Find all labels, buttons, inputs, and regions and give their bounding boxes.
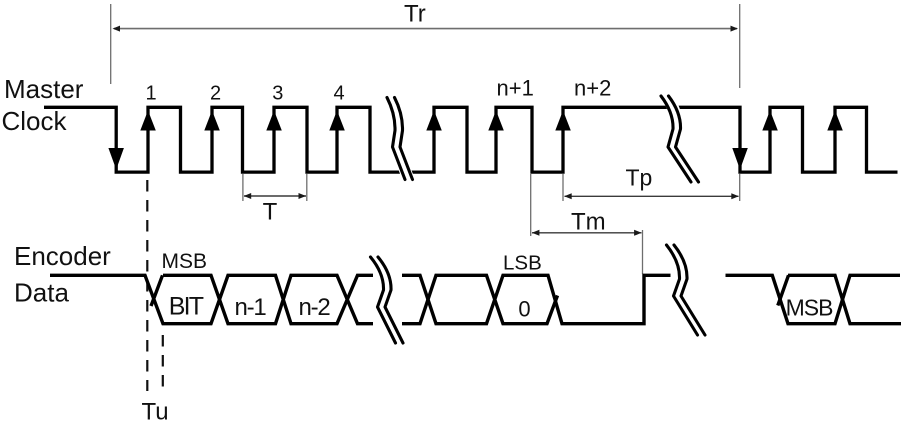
clock rising-edge arrow after break [426,111,442,131]
clock falling-edge arrow at Tr end [732,148,748,170]
Tm right arrowhead [634,230,642,236]
Tu second dashed line (data valid) [162,335,164,391]
Tp dimension line [565,195,739,197]
data break 2 white gap [670,243,702,338]
Tr left arrowhead [113,26,121,32]
master clock waveform [44,107,898,172]
clock break 1 stroke a [387,98,405,180]
clock rising-edge arrow pulse 2 [204,111,220,131]
encoder data bus line C (tail MSB cell counter-phase) [778,275,901,323]
Tm left arrowhead [532,230,540,236]
svg-text:n+2: n+2 [574,76,611,101]
Tr dimension right extension line [739,4,741,88]
clock rising-edge arrow pulse n+1 [488,111,504,131]
clock rising-edge arrow (tail pulse a) [762,111,778,131]
T right arrowhead [299,193,307,199]
encoder data bus line A (idle high then alternating) [50,275,900,323]
encoder data bus line B (counter-phase) [151,275,558,323]
svg-text:BIT: BIT [169,293,204,321]
Tp dimension right extension line [739,174,741,201]
Tm dimension left extension line [530,174,532,236]
data break 1 stroke b [378,257,403,343]
data break 1 stroke a [371,257,396,343]
svg-text:Tm: Tm [571,209,606,236]
svg-text:MSB: MSB [786,295,834,321]
svg-text:Tr: Tr [404,1,426,28]
Tr right arrowhead [731,26,739,32]
svg-text:Tp: Tp [626,165,653,191]
svg-text:Data: Data [14,278,69,308]
clock rising-edge arrow (tail pulse b) [827,111,843,131]
svg-text:MSB: MSB [162,250,208,273]
svg-text:n-2: n-2 [298,294,330,321]
svg-text:1: 1 [145,83,156,105]
T dimension left extension line [242,174,244,201]
svg-text:0: 0 [518,297,530,322]
Tm dimension line [532,232,642,234]
svg-text:Encoder: Encoder [14,241,111,271]
Tu first dashed line (clock edge) [146,180,148,391]
clock break 1 stroke b [395,98,413,180]
clock rising-edge arrow pulse 1 [140,111,156,131]
Tp dimension left extension line [562,174,564,201]
Tr dimension left extension line [110,4,112,84]
clock break 2 stroke a [661,96,691,182]
clock break 2 stroke b [669,96,699,182]
clock break 1 white gap [391,95,410,182]
svg-text:Tu: Tu [142,399,169,423]
clock falling-edge arrow (start) [108,148,124,170]
svg-text:Clock: Clock [2,106,68,136]
clock break 2 white gap [665,94,696,185]
clock rising-edge arrow pulse 4 [329,111,345,131]
svg-text:T: T [263,199,278,226]
clock rising-edge arrow pulse n+2 [555,111,571,131]
clock rising-edge arrow pulse 3 [266,111,282,131]
svg-text:LSB: LSB [503,252,542,275]
svg-text:n+1: n+1 [497,76,534,101]
svg-text:3: 3 [272,83,283,105]
svg-text:Master: Master [4,74,84,104]
Tr dimension line [114,28,737,30]
data break 1 white gap [374,255,400,346]
svg-text:4: 4 [333,83,344,105]
svg-text:2: 2 [210,83,221,105]
data break 2 stroke b [674,245,705,335]
T left arrowhead [244,193,252,199]
svg-text:n-1: n-1 [234,294,266,321]
Tm dimension right extension line [642,230,644,274]
T dimension line [244,195,306,197]
Tp left arrowhead [564,193,572,199]
T dimension right extension line [306,174,308,201]
data break 2 stroke a [667,245,698,335]
Tp right arrowhead [731,193,739,199]
